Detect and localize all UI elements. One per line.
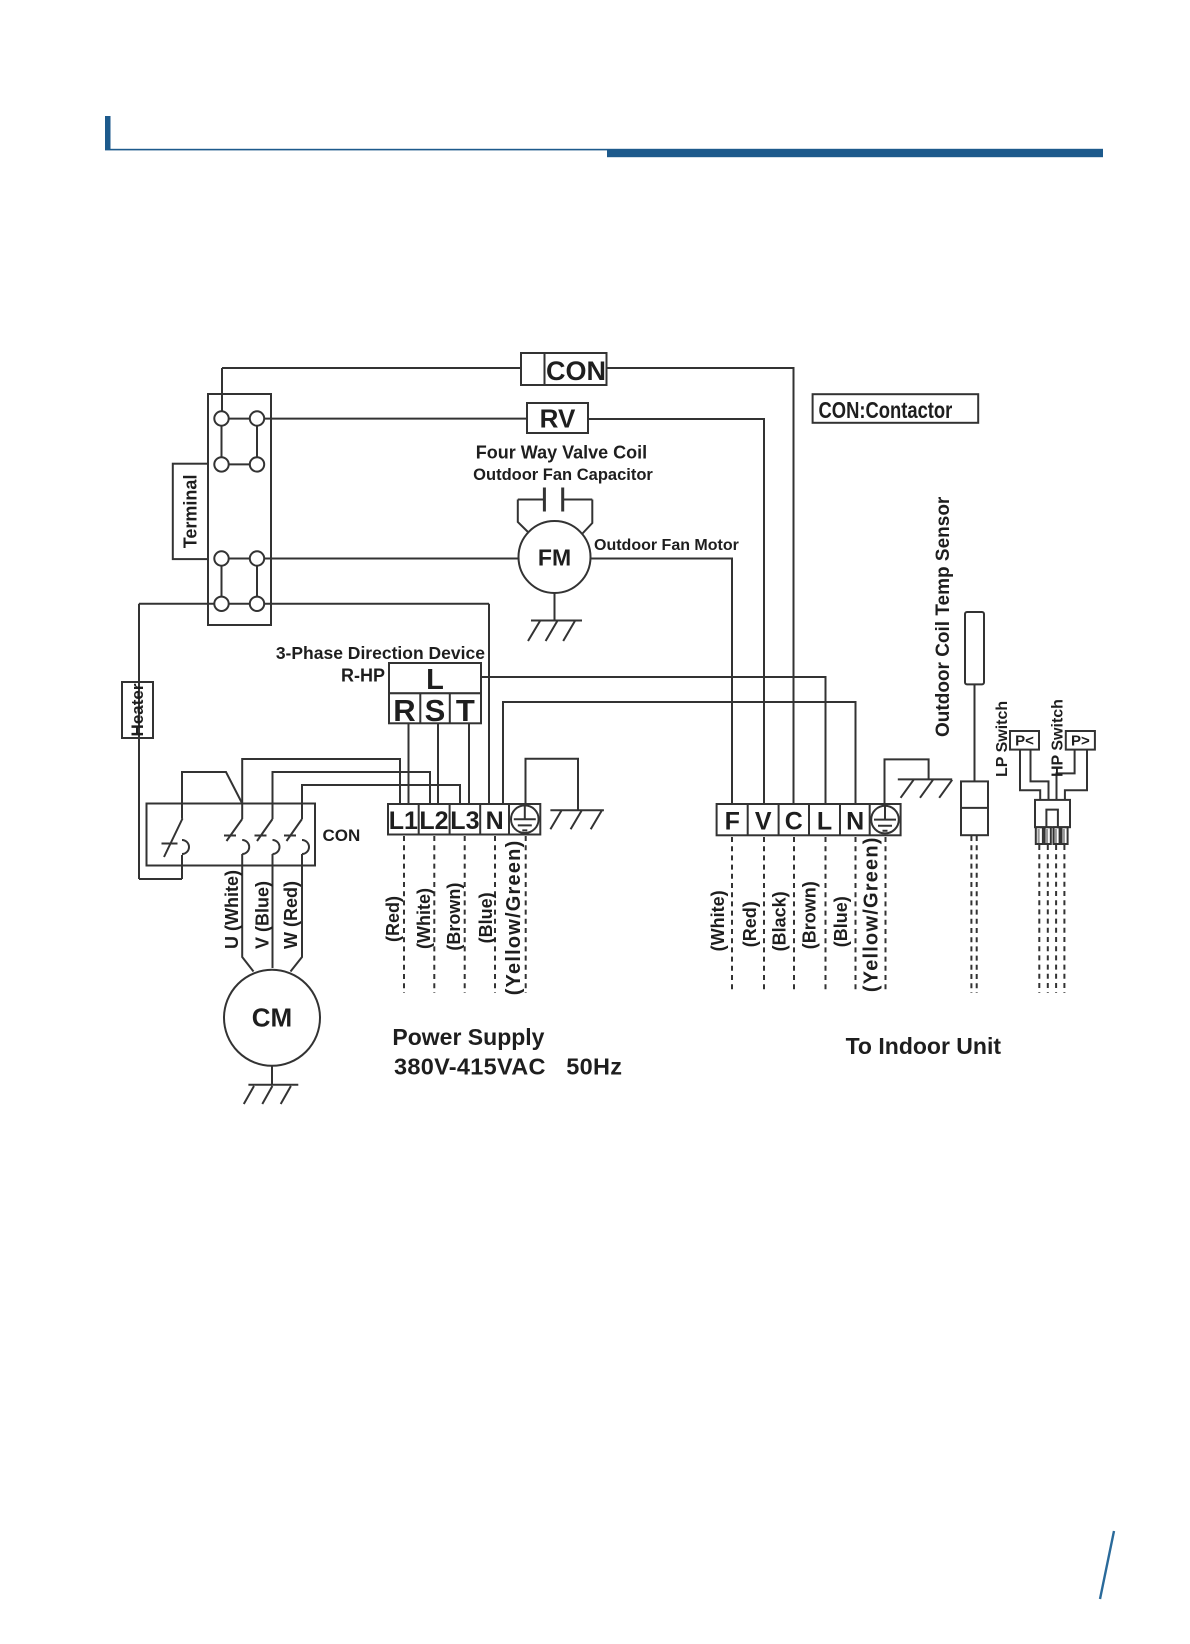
- svg-text:(Yellow/Green): (Yellow/Green): [503, 840, 525, 996]
- svg-text:(White): (White): [708, 890, 728, 951]
- svg-text:P<: P<: [1015, 733, 1034, 750]
- svg-text:To Indoor Unit: To Indoor Unit: [846, 1033, 1002, 1059]
- svg-text:(Red): (Red): [740, 901, 760, 947]
- svg-text:(Yellow/Green): (Yellow/Green): [861, 836, 883, 992]
- svg-text:N: N: [846, 808, 864, 836]
- svg-text:Four Way Valve Coil: Four Way Valve Coil: [476, 443, 647, 463]
- svg-text:(Blue): (Blue): [476, 892, 496, 943]
- svg-text:V (Blue): V (Blue): [252, 881, 272, 949]
- svg-text:380V-415VAC 50Hz: 380V-415VAC 50Hz: [394, 1054, 622, 1080]
- svg-text:CON: CON: [546, 356, 606, 386]
- svg-text:(Black): (Black): [770, 891, 790, 951]
- svg-text:RV: RV: [540, 404, 576, 434]
- svg-text:L2: L2: [419, 807, 448, 835]
- svg-text:L3: L3: [450, 807, 479, 835]
- svg-text:W (Red): W (Red): [281, 881, 301, 949]
- svg-text:T: T: [456, 693, 475, 728]
- svg-text:Outdoor Fan Capacitor: Outdoor Fan Capacitor: [473, 466, 653, 484]
- svg-text:CON:Contactor: CON:Contactor: [819, 398, 953, 423]
- svg-text:P>: P>: [1071, 733, 1090, 750]
- svg-text:(White): (White): [414, 888, 434, 949]
- svg-text:LP Switch: LP Switch: [994, 701, 1011, 777]
- svg-text:F: F: [725, 808, 740, 836]
- svg-text:R-HP: R-HP: [341, 666, 385, 686]
- svg-text:(Brown): (Brown): [444, 883, 464, 951]
- svg-text:CON: CON: [323, 826, 361, 845]
- svg-text:HP Switch: HP Switch: [1049, 699, 1066, 777]
- svg-text:Terminal: Terminal: [180, 475, 200, 549]
- svg-text:Outdoor Coil Temp Sensor: Outdoor Coil Temp Sensor: [933, 496, 954, 737]
- svg-text:Power Supply: Power Supply: [392, 1024, 544, 1050]
- svg-text:N: N: [486, 807, 504, 835]
- svg-text:L: L: [817, 808, 832, 836]
- svg-text:(Blue): (Blue): [831, 896, 851, 947]
- svg-text:FM: FM: [538, 545, 571, 571]
- svg-text:Outdoor Fan Motor: Outdoor Fan Motor: [594, 537, 739, 554]
- svg-text:Heater: Heater: [128, 683, 147, 736]
- svg-text:(Red): (Red): [383, 896, 403, 942]
- svg-text:CM: CM: [252, 1003, 292, 1033]
- svg-text:V: V: [755, 808, 772, 836]
- svg-text:C: C: [785, 808, 803, 836]
- svg-text:L: L: [426, 664, 444, 696]
- svg-text:R: R: [393, 693, 415, 728]
- svg-text:S: S: [425, 693, 446, 728]
- svg-text:3-Phase Direction Device: 3-Phase Direction Device: [276, 643, 485, 663]
- svg-text:U (White): U (White): [222, 870, 242, 949]
- svg-text:(Brown): (Brown): [800, 881, 820, 949]
- svg-text:L1: L1: [389, 807, 418, 835]
